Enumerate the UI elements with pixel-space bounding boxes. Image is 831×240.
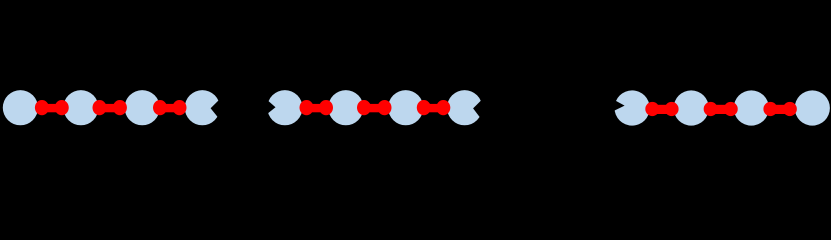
chain 2: bond B4 dot a [300, 100, 314, 115]
chain 2: monomer M7 [388, 90, 423, 125]
chain 3: bond B8 bar [711, 105, 731, 114]
chain 3: monomer M10 [674, 90, 709, 125]
chain 3: bond B8 dot b [724, 102, 738, 116]
chain 3: monomer M9 mouth wedge [608, 97, 625, 114]
chain 3: bond B8 dot a [704, 102, 718, 116]
chain 1: bond B1 bar [42, 104, 62, 112]
chain 1: bond B2 dot b [113, 100, 127, 115]
chain 1: monomer M4 (pac-man, mouth right) [185, 90, 220, 125]
chain 2: bond B5 bar [364, 104, 385, 112]
chain 2: bond B6 dot a [417, 100, 431, 115]
chain 3: bond B9 dot b [783, 102, 797, 116]
chain 3: bond B7 bar [652, 105, 671, 114]
chain 2: bond B6 bar [424, 104, 444, 112]
chain 2: monomer M5 mouth wedge [261, 95, 275, 119]
chain 1: monomer M1 [3, 90, 38, 125]
chain 3: bond B9 bar [770, 105, 789, 114]
chain 3: bond B7 dot a [645, 102, 659, 116]
chain 1: monomer M3 [125, 90, 160, 125]
chain 3: monomer M12 [795, 90, 830, 125]
chain 1: bond B1 dot b [55, 100, 69, 115]
chain 2: bond B5 dot a [357, 100, 371, 115]
chain 2: bond B6 dot b [436, 100, 450, 115]
chain 3: monomer M9 (pac-man, mouth left) [615, 90, 650, 125]
chain 1: bond B1 dot a [35, 100, 49, 115]
chain 1: bond B3 bar [160, 104, 180, 112]
chain 1: bond B2 bar [100, 104, 120, 112]
chain 2: bond B4 bar [307, 104, 327, 112]
chain 1: bond B3 dot a [153, 100, 167, 115]
chain 1: monomer M2 [63, 90, 98, 125]
chain 2: monomer M5 (pac-man, mouth left) [267, 90, 302, 125]
chain 2: monomer M8 mouth wedge [473, 95, 487, 123]
chain 2: monomer M8 (pac-man, mouth right) [447, 90, 482, 125]
chain 1: monomer M4 mouth wedge [211, 95, 225, 122]
chain 3: monomer M11 [734, 90, 769, 125]
chain 2: monomer M6 [328, 90, 363, 125]
chain 3: bond B9 dot a [763, 102, 777, 116]
chain 2: bond B5 dot b [378, 100, 392, 115]
chain 3: bond B7 dot b [665, 102, 679, 116]
chain 1: bond B3 dot b [173, 100, 187, 115]
chain 2: bond B4 dot b [319, 100, 333, 115]
chain 1: bond B2 dot a [93, 100, 107, 115]
